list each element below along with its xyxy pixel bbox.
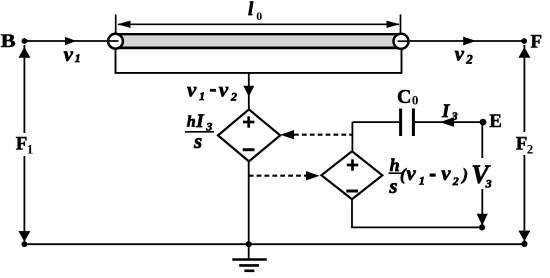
svg-text:I: I [441,101,450,122]
svg-text:1: 1 [199,89,205,103]
svg-text:3: 3 [451,109,458,123]
svg-text:F: F [16,133,28,154]
svg-text:F: F [531,32,543,53]
svg-text:s: s [193,129,202,153]
svg-text:l: l [248,0,254,20]
svg-text:2: 2 [527,141,534,156]
svg-text:0: 0 [256,9,262,23]
svg-text:C: C [397,86,411,108]
svg-text:v: v [406,161,416,185]
svg-text:0: 0 [412,93,419,108]
svg-text:F: F [516,133,528,154]
svg-text:v: v [219,77,229,101]
svg-text:2: 2 [230,90,237,104]
svg-text:B: B [1,31,16,52]
svg-text:1: 1 [75,51,81,65]
svg-text:3: 3 [485,176,492,190]
svg-text:): ) [460,165,468,184]
svg-text:s: s [388,174,397,198]
svg-text:2: 2 [465,51,473,66]
svg-text:2: 2 [452,174,459,188]
svg-text:v: v [441,161,451,185]
svg-text:h: h [390,155,400,175]
svg-text:1: 1 [27,141,34,156]
svg-text:v: v [64,42,74,66]
svg-text:E: E [489,111,502,132]
svg-text:1: 1 [419,174,425,188]
svg-text:v: v [187,77,197,101]
svg-text:v: v [455,42,465,66]
